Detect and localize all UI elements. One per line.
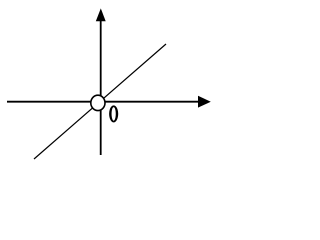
origin open circle node: [91, 95, 105, 110]
y-axis arrowhead: [96, 8, 106, 21]
x-axis arrowhead: [198, 96, 211, 108]
diagonal line through origin: [34, 44, 166, 159]
y-axis (vertical) wire: [100, 20, 102, 155]
x-axis (horizontal) wire: [7, 101, 199, 103]
label 0 (origin): [109, 105, 118, 122]
